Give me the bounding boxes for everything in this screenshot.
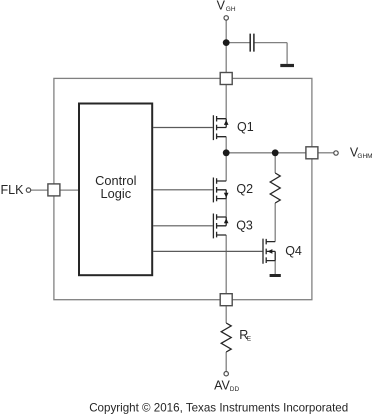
svg-text:Q1: Q1 — [237, 120, 254, 134]
svg-text:GHM: GHM — [357, 153, 372, 160]
svg-text:V: V — [217, 0, 226, 13]
svg-text:DD: DD — [230, 386, 240, 393]
svg-text:AV: AV — [214, 379, 230, 393]
svg-text:Q3: Q3 — [236, 219, 253, 233]
svg-text:FLK: FLK — [1, 183, 25, 197]
svg-text:E: E — [247, 336, 252, 343]
svg-text:Copyright © 2016, Texas Instru: Copyright © 2016, Texas Instruments Inco… — [89, 401, 348, 414]
svg-text:Q4: Q4 — [285, 244, 302, 258]
svg-text:GH: GH — [226, 6, 236, 13]
svg-text:Q2: Q2 — [236, 182, 253, 196]
svg-text:Logic: Logic — [101, 186, 132, 201]
